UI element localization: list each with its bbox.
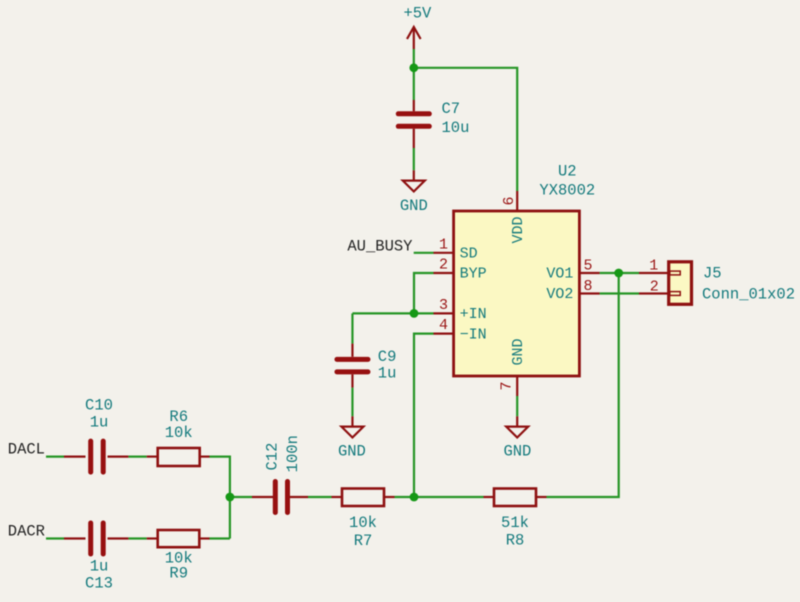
svg-text:DACR: DACR (8, 523, 45, 541)
svg-text:SD: SD (460, 246, 478, 263)
svg-text:R9: R9 (169, 564, 188, 582)
svg-text:C9: C9 (378, 348, 397, 366)
svg-text:1u: 1u (378, 365, 397, 383)
svg-text:3: 3 (439, 297, 448, 314)
svg-text:8: 8 (583, 278, 592, 295)
svg-text:7: 7 (499, 381, 516, 390)
svg-text:BYP: BYP (460, 266, 487, 283)
svg-text:C13: C13 (85, 574, 113, 592)
svg-text:+IN: +IN (460, 306, 487, 323)
svg-text:4: 4 (439, 317, 448, 334)
svg-text:GND: GND (510, 338, 527, 365)
svg-text:10k: 10k (165, 424, 193, 442)
svg-text:10k: 10k (349, 514, 377, 532)
svg-text:GND: GND (338, 442, 366, 460)
svg-text:C7: C7 (442, 100, 461, 118)
svg-text:DACL: DACL (8, 441, 45, 459)
svg-text:Conn_01x02: Conn_01x02 (702, 286, 795, 304)
svg-text:10u: 10u (442, 119, 470, 137)
svg-text:U2: U2 (558, 162, 577, 180)
svg-text:C12: C12 (263, 443, 281, 471)
svg-text:5: 5 (583, 257, 592, 274)
svg-text:VDD: VDD (510, 216, 527, 243)
svg-text:1: 1 (439, 236, 448, 253)
svg-text:AU_BUSY: AU_BUSY (347, 238, 413, 256)
svg-text:GND: GND (503, 442, 531, 460)
svg-text:1: 1 (649, 257, 658, 274)
svg-text:2: 2 (439, 257, 448, 274)
svg-text:VO1: VO1 (546, 266, 573, 283)
svg-text:1u: 1u (90, 413, 109, 431)
svg-text:GND: GND (400, 197, 428, 215)
svg-text:1u: 1u (90, 557, 109, 575)
svg-text:+5V: +5V (403, 5, 432, 23)
svg-text:2: 2 (650, 278, 659, 295)
svg-text:J5: J5 (703, 265, 722, 283)
svg-text:R8: R8 (506, 531, 525, 549)
svg-text:−IN: −IN (460, 326, 487, 343)
svg-text:C10: C10 (85, 396, 113, 414)
svg-text:6: 6 (501, 196, 518, 205)
svg-text:100n: 100n (284, 435, 302, 472)
svg-text:51k: 51k (501, 514, 529, 532)
svg-text:VO2: VO2 (546, 286, 573, 303)
svg-text:R7: R7 (354, 532, 373, 550)
svg-text:YX8002: YX8002 (539, 182, 595, 200)
